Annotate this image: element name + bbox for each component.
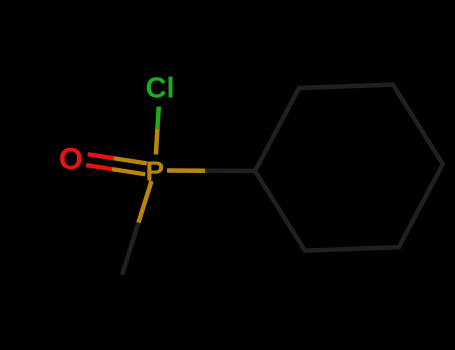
svg-text:Cl: Cl	[146, 73, 175, 105]
bond P-ring, P half (gold)	[167, 168, 205, 173]
svg-text:P: P	[146, 155, 165, 186]
cyclohexane ring (carbon skeleton, dark gray)	[255, 85, 443, 251]
double bond P=O upper line, O half (red)	[88, 154, 114, 158]
bond P-CH3, carbon half (gray)	[122, 223, 138, 275]
bond P-Cl, Cl half (green)	[157, 107, 158, 129]
double bond P=O upper line, P half (gold)	[114, 158, 147, 163]
svg-text:O: O	[59, 141, 83, 176]
bond P-ring, carbon half (gray)	[205, 168, 255, 173]
double bond P=O lower line, P half (gold)	[112, 169, 145, 174]
bond P-CH3, P half (gold)	[138, 181, 151, 223]
double bond P=O lower line, O half (red)	[86, 165, 112, 169]
bond P-Cl, P half (gold)	[156, 129, 158, 155]
